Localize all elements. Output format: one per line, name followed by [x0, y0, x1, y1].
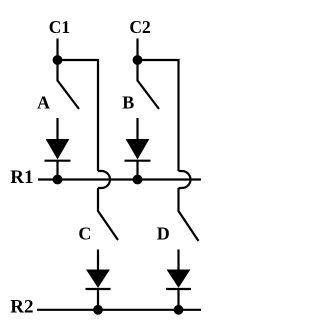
- diode B triangle: [127, 140, 149, 159]
- svg-text:C: C: [78, 224, 91, 244]
- svg-text:C1: C1: [49, 17, 70, 37]
- wire row R2: [37, 309, 201, 311]
- diode D anode lead: [177, 250, 179, 271]
- switch B: [138, 60, 160, 109]
- switch C: [98, 188, 118, 240]
- diode D triangle: [168, 270, 190, 287]
- junction dot diode B on R1: [133, 175, 143, 185]
- diode A cathode bar: [45, 160, 71, 162]
- diode B cathode lead: [136, 161, 138, 180]
- svg-text:C2: C2: [129, 17, 150, 37]
- diode C cathode bar: [86, 288, 111, 290]
- svg-text:D: D: [157, 224, 170, 244]
- diode A cathode lead: [56, 161, 58, 180]
- wire C1 stem: [56, 39, 58, 61]
- wire C2 stem: [136, 39, 138, 61]
- svg-text:R2: R2: [10, 297, 33, 318]
- wire row R1: [38, 178, 201, 180]
- diode D cathode lead: [177, 289, 179, 310]
- svg-text:A: A: [37, 93, 50, 113]
- diode D cathode bar: [166, 288, 191, 290]
- junction dot at C1: [53, 55, 63, 65]
- diode A anode lead: [56, 118, 58, 140]
- junction dot diode C on R2: [93, 305, 103, 315]
- wire hop of column D over R1: [179, 171, 191, 188]
- wire branch C2 to column D: [138, 60, 179, 171]
- diode A triangle: [47, 140, 69, 159]
- wire hop of column C over R1: [98, 171, 110, 188]
- diode B cathode bar: [125, 160, 151, 162]
- diode C anode lead: [97, 250, 99, 271]
- switch D: [179, 188, 199, 241]
- diode C triangle: [87, 270, 109, 287]
- svg-text:R1: R1: [10, 167, 33, 188]
- junction dot diode D on R2: [174, 305, 184, 315]
- switch A: [58, 60, 80, 109]
- svg-text:B: B: [122, 93, 134, 113]
- junction dot at C2: [133, 55, 143, 65]
- junction dot diode A on R1: [53, 175, 63, 185]
- wire branch C1 to column C: [58, 60, 99, 171]
- diode B anode lead: [136, 118, 138, 140]
- diode C cathode lead: [97, 289, 99, 310]
